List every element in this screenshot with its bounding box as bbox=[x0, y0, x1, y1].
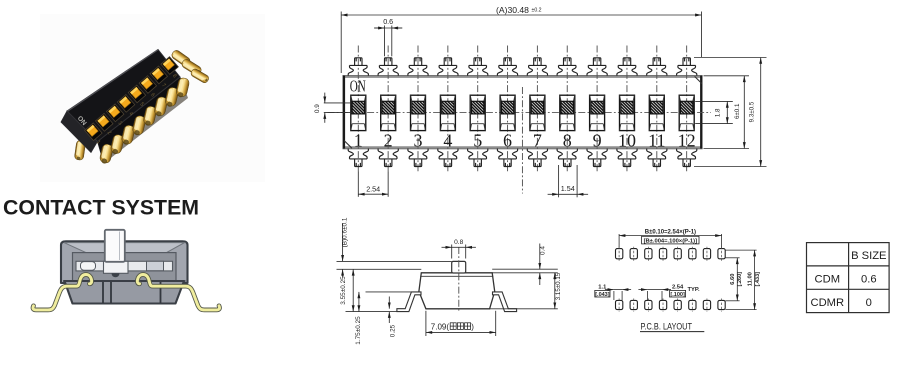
photo: switch body right end sliver bbox=[158, 50, 183, 86]
svg-text:CDMR: CDMR bbox=[811, 297, 845, 309]
pin 5 bottom (gull-wing, bottom side) bbox=[468, 149, 488, 167]
body left edge (thick) bbox=[343, 76, 345, 149]
svg-text:3: 3 bbox=[414, 130, 423, 150]
pcb pad row 1 pos 1 bbox=[616, 249, 623, 259]
pcb right connectors and dimensions 6.60 / 11.00 bbox=[725, 249, 756, 251]
photo: gold slider 1 bbox=[87, 125, 99, 137]
dimension 7.09 (reference) body length bbox=[425, 311, 427, 336]
pcb dimension 1.1 pad width bbox=[613, 291, 615, 300]
pin 10 bottom (gull-wing, bottom side) bbox=[617, 149, 637, 167]
lead exit reference line bbox=[366, 291, 421, 293]
photo: slot 7 bbox=[150, 66, 167, 84]
photo: slot 6 bbox=[139, 76, 156, 94]
svg-text:3.55±0.25: 3.55±0.25 bbox=[340, 276, 347, 305]
position 8 vertical centerline bbox=[566, 46, 568, 172]
actuator top reference line bbox=[337, 260, 452, 262]
chamfer mark top-right corner bbox=[695, 76, 702, 83]
photo: switch body front face bbox=[98, 77, 185, 156]
svg-text:2: 2 bbox=[384, 130, 393, 150]
cross-section actuator plunger bbox=[105, 230, 125, 262]
photo: back-row pins peeking at top-right end bbox=[170, 49, 191, 68]
svg-text:9: 9 bbox=[593, 130, 602, 150]
part vertical centerline between positions 6 and 7 bbox=[521, 87, 523, 194]
position 1 vertical centerline bbox=[357, 46, 359, 172]
photo: back edge highlight bbox=[68, 50, 158, 111]
svg-text:7.09(: 7.09( bbox=[431, 323, 450, 332]
seating plane reference line bbox=[346, 311, 398, 313]
pcb pad row 2 pos 4 bbox=[659, 300, 666, 309]
body top reference line (right) bbox=[492, 268, 558, 270]
svg-text:6±0.1: 6±0.1 bbox=[734, 103, 741, 119]
cross-section contact shelf band bbox=[76, 261, 173, 271]
right yellow lead bbox=[137, 275, 219, 310]
position 3 vertical centerline bbox=[417, 46, 419, 172]
photo: slot 4 bbox=[117, 95, 134, 113]
switch slot 7 with hatched slider bbox=[530, 95, 545, 130]
side view body outline bbox=[419, 273, 495, 309]
pcb pad row 2 pos 7 bbox=[703, 300, 710, 309]
svg-text:5: 5 bbox=[473, 130, 482, 150]
position 6 vertical centerline bbox=[507, 46, 509, 172]
horizontal centerline of body bbox=[328, 112, 712, 114]
svg-text:): ) bbox=[471, 323, 474, 332]
photo: gold slider 5 bbox=[130, 87, 142, 99]
pcb pad row 2 pos 5 bbox=[674, 300, 681, 309]
pin 11 bottom (gull-wing, bottom side) bbox=[647, 149, 667, 167]
side view body seam line bbox=[420, 275, 493, 277]
svg-text:[.043]: [.043] bbox=[595, 292, 610, 298]
svg-text:[.100]: [.100] bbox=[670, 292, 685, 298]
photo: slot 1 bbox=[85, 123, 102, 141]
pin 3 bottom (gull-wing, bottom side) bbox=[408, 149, 428, 167]
left yellow lead bbox=[33, 275, 92, 310]
pin 1 top (gull-wing, top side) bbox=[348, 58, 368, 76]
pin 7 top (gull-wing, top side) bbox=[527, 58, 547, 76]
dimension 0.6 pin width at position 2 bbox=[384, 26, 386, 57]
pin 2 bottom (gull-wing, bottom side) bbox=[378, 149, 398, 167]
svg-text:12: 12 bbox=[678, 130, 696, 150]
switch slot 2 with hatched slider bbox=[381, 95, 396, 130]
svg-text:6: 6 bbox=[503, 130, 512, 150]
photo: slot 3 bbox=[106, 104, 123, 122]
dimension 2.54 pitch between positions 1 and 2 bbox=[357, 171, 359, 197]
switch slot 9 with hatched slider bbox=[590, 95, 605, 130]
photo: gold slider 7 bbox=[152, 68, 164, 80]
svg-text:1.75±0.25: 1.75±0.25 bbox=[355, 316, 362, 345]
svg-text:10: 10 bbox=[618, 130, 636, 150]
dimension 3.55 +-0.25 bbox=[352, 269, 354, 311]
side view right gull-wing lead bbox=[493, 292, 517, 312]
photo: shadow behind pins bbox=[99, 82, 188, 163]
pcb pad row 1 pos 5 bbox=[674, 249, 681, 259]
pin 2 top (gull-wing, top side) bbox=[378, 58, 398, 76]
switch slot 4 with hatched slider bbox=[440, 95, 455, 130]
svg-text:[.433]: [.433] bbox=[755, 272, 761, 287]
photo: gold slider 4 bbox=[119, 96, 131, 108]
dimension (A)30.48 +-0.2 overall length bbox=[340, 12, 342, 74]
pcb pad row 1 pos 2 bbox=[630, 249, 637, 259]
pcb pad row 1 pos 3 bbox=[645, 249, 652, 259]
pin 4 top (gull-wing, top side) bbox=[438, 58, 458, 76]
svg-text:11: 11 bbox=[648, 130, 665, 150]
switch slot 11 with hatched slider bbox=[649, 95, 664, 130]
pin 6 bottom (gull-wing, bottom side) bbox=[497, 149, 517, 167]
photo: front-row gold pins bbox=[99, 143, 114, 164]
svg-text:4: 4 bbox=[443, 130, 452, 150]
dimension 3.15 +-0.15 body height bbox=[554, 273, 556, 309]
svg-text:0.25: 0.25 bbox=[389, 324, 396, 337]
switch slot 6 with hatched slider bbox=[500, 95, 515, 130]
pin 8 top (gull-wing, top side) bbox=[557, 58, 577, 76]
B size table bbox=[807, 243, 890, 313]
position 4 vertical centerline bbox=[447, 46, 449, 172]
svg-text:1: 1 bbox=[354, 130, 363, 150]
svg-text:1.1: 1.1 bbox=[598, 284, 607, 290]
svg-text:0.8: 0.8 bbox=[454, 239, 463, 246]
svg-text:11.00: 11.00 bbox=[748, 272, 754, 286]
dimension 9.3 +-0.5 overall width incl pins (right side) bbox=[694, 57, 767, 59]
body top edge (thick) bbox=[343, 76, 702, 78]
pcb pad row 1 pos 8 bbox=[718, 249, 725, 259]
switch slot 12 with hatched slider bbox=[679, 95, 694, 130]
pin 7 bottom (gull-wing, bottom side) bbox=[527, 149, 547, 167]
cross-section left contact bump bbox=[81, 262, 96, 271]
pcb pad row 2 pos 6 bbox=[689, 300, 696, 309]
position 10 vertical centerline bbox=[626, 46, 628, 172]
switch slot 3 with hatched slider bbox=[411, 95, 426, 130]
svg-text:ON: ON bbox=[350, 77, 366, 96]
pcb pad row 2 pos 3 bbox=[645, 300, 652, 309]
chamfer mark bottom-left corner bbox=[344, 141, 352, 149]
pcb pad row 1 pos 7 bbox=[703, 249, 710, 259]
pin 9 bottom (gull-wing, bottom side) bbox=[587, 149, 607, 167]
photo: switch body left end face bbox=[61, 111, 98, 153]
svg-text:1.54: 1.54 bbox=[561, 184, 575, 193]
svg-text:B±0.10=2.54×(P-1): B±0.10=2.54×(P-1) bbox=[645, 229, 696, 235]
position 11 vertical centerline bbox=[656, 46, 658, 172]
svg-text:0.6: 0.6 bbox=[861, 274, 877, 286]
pcb pad row 1 pos 6 bbox=[689, 249, 696, 259]
dimension 1.54 lead width at position 8 bbox=[558, 165, 560, 197]
svg-text:9.3±0.5: 9.3±0.5 bbox=[749, 101, 756, 122]
photo: switch body top face bbox=[67, 50, 180, 142]
photo: back-row pin peeking below left end bbox=[74, 140, 86, 161]
pin 12 bottom (gull-wing, bottom side) bbox=[677, 149, 697, 167]
cross-section top surface highlight bbox=[64, 243, 185, 253]
pcb pad row 2 pos 2 bbox=[630, 300, 637, 309]
pin 1 bottom (gull-wing, bottom side) bbox=[348, 149, 368, 167]
pcb pad row 2 pos 8 bbox=[718, 300, 725, 309]
dimension 0.25 lead thickness bbox=[388, 297, 390, 309]
pin 4 bottom (gull-wing, bottom side) bbox=[438, 149, 458, 167]
photo: slot 8 bbox=[161, 57, 178, 75]
svg-text:[B±.004=.100×(P-1)]: [B±.004=.100×(P-1)] bbox=[644, 238, 698, 244]
svg-text:2.54: 2.54 bbox=[366, 184, 380, 193]
cross-section base block bbox=[65, 281, 185, 304]
switch slot 10 with hatched slider bbox=[620, 95, 635, 130]
svg-text:0: 0 bbox=[866, 297, 872, 309]
pin 5 top (gull-wing, top side) bbox=[468, 58, 488, 76]
cross-section housing upper block bbox=[61, 241, 188, 283]
svg-text:±0.2: ±0.2 bbox=[532, 8, 542, 14]
dimension 1.75 +-0.25 bbox=[358, 292, 360, 312]
position 12 vertical centerline bbox=[686, 46, 688, 172]
dimension 0.8 actuator width bbox=[451, 245, 453, 259]
body top reference line (left) bbox=[337, 268, 422, 270]
body bottom reference line (right) bbox=[490, 308, 558, 310]
dimension 0.9 slider travel at left bbox=[324, 102, 352, 104]
pcb dimension B = 2.54 x (P-1) bbox=[618, 234, 620, 248]
photo: slot 2 bbox=[96, 113, 113, 131]
switch slot 8 with hatched slider bbox=[560, 95, 575, 130]
side view actuator bbox=[452, 261, 466, 273]
dimension 6 +-0.1 body width (right side) bbox=[704, 75, 750, 77]
dimension 0.4 actuator step bbox=[539, 244, 541, 270]
position 5 vertical centerline bbox=[477, 46, 479, 172]
svg-text:TYP.: TYP. bbox=[688, 287, 701, 293]
svg-text:3.15±0.15: 3.15±0.15 bbox=[555, 272, 562, 300]
svg-text:1.8: 1.8 bbox=[715, 108, 722, 117]
cross-section right shelf piece bbox=[147, 261, 164, 270]
svg-text:8: 8 bbox=[563, 130, 572, 150]
photo: gold slider 6 bbox=[141, 78, 153, 90]
pcb pad row 1 pos 4 bbox=[659, 249, 666, 259]
photo: gold slider 8 bbox=[163, 59, 175, 71]
pcb pad row 2 pos 1 bbox=[616, 300, 623, 309]
photo: slot 5 bbox=[128, 85, 145, 103]
top view: 12-position DIP switch body outline bbox=[343, 76, 702, 149]
svg-text:(B)0.6±0.1: (B)0.6±0.1 bbox=[342, 217, 349, 247]
cross-section inner cavity bbox=[73, 253, 177, 282]
pcb dimension 2.54 pad pitch bbox=[646, 291, 648, 300]
svg-text:0.4: 0.4 bbox=[539, 246, 546, 255]
svg-text:CDM: CDM bbox=[815, 274, 840, 286]
pin 11 top (gull-wing, top side) bbox=[647, 58, 667, 76]
svg-text:(A)30.48: (A)30.48 bbox=[496, 5, 529, 15]
position 2 vertical centerline bbox=[387, 46, 389, 172]
svg-text:P.C.B. LAYOUT: P.C.B. LAYOUT bbox=[641, 321, 693, 331]
position 9 vertical centerline bbox=[596, 46, 598, 172]
pin 9 top (gull-wing, top side) bbox=[587, 58, 607, 76]
body right edge (thick) bbox=[700, 76, 702, 149]
svg-text:CONTACT SYSTEM: CONTACT SYSTEM bbox=[3, 195, 199, 219]
photo: gold slider 3 bbox=[108, 106, 120, 118]
photo: faint backdrop bbox=[40, 14, 265, 182]
svg-text:B SIZE: B SIZE bbox=[851, 250, 886, 262]
svg-text:0.9: 0.9 bbox=[314, 104, 321, 113]
cross-section center rocker contact bbox=[104, 261, 129, 273]
pin 10 top (gull-wing, top side) bbox=[617, 58, 637, 76]
dimension 1.8 slider window height (right side) bbox=[695, 100, 733, 102]
body bottom edge (thick) bbox=[343, 146, 702, 149]
pin 8 bottom (gull-wing, bottom side) bbox=[557, 149, 577, 167]
svg-text:[.260]: [.260] bbox=[737, 272, 743, 287]
side view left gull-wing lead bbox=[397, 292, 421, 312]
svg-text:7: 7 bbox=[533, 130, 542, 150]
switch slot 5 with hatched slider bbox=[470, 95, 485, 130]
photo: gold slider 2 bbox=[98, 115, 110, 127]
svg-text:0.6: 0.6 bbox=[383, 17, 393, 26]
svg-text:6.60: 6.60 bbox=[730, 274, 736, 285]
pin 12 top (gull-wing, top side) bbox=[677, 58, 697, 76]
pin 6 top (gull-wing, top side) bbox=[497, 58, 517, 76]
position 7 vertical centerline bbox=[536, 46, 538, 172]
housing/base seam line bbox=[63, 280, 186, 282]
switch slot 1 with hatched slider bbox=[351, 95, 366, 130]
dimension (B)0.6 +-0.1 actuator height bbox=[342, 223, 344, 261]
pin 3 top (gull-wing, top side) bbox=[408, 58, 428, 76]
side view centerline bbox=[458, 247, 460, 311]
svg-text:2.54: 2.54 bbox=[672, 285, 684, 291]
base seam lines bbox=[102, 282, 104, 303]
